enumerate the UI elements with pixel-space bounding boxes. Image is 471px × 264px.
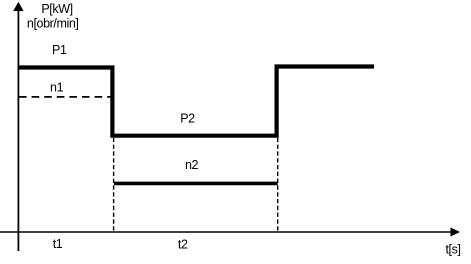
x-axis — [0, 231, 451, 233]
y-axis — [17, 8, 19, 251]
power step curve P1-P2-P1 — [18, 67, 374, 136]
svg-text:P2: P2 — [180, 111, 195, 125]
svg-text:t2: t2 — [178, 238, 188, 252]
dashed vertical marker at end of t2 — [277, 138, 279, 231]
svg-text:n2: n2 — [185, 158, 199, 172]
y-axis arrowhead — [13, 2, 23, 11]
svg-text:t[s]: t[s] — [445, 243, 460, 257]
svg-text:t1: t1 — [53, 237, 63, 251]
x-axis arrowhead — [451, 228, 461, 237]
svg-text:n[obr/min]: n[obr/min] — [27, 16, 79, 30]
n2 speed line — [114, 182, 278, 186]
n1 dashed speed line — [19, 96, 112, 98]
svg-text:P[kW]: P[kW] — [41, 2, 72, 16]
svg-text:n1: n1 — [50, 81, 64, 95]
dashed vertical marker at end of t1 — [113, 138, 115, 231]
svg-text:P1: P1 — [52, 43, 67, 57]
